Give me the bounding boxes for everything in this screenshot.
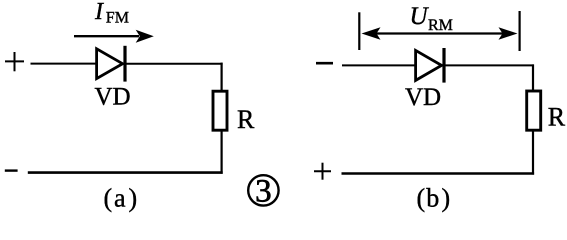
- svg-text:R: R: [237, 105, 255, 134]
- node + terminal (b): [314, 163, 331, 180]
- svg-text:VD: VD: [94, 84, 130, 111]
- label (a): [104, 184, 138, 213]
- node - terminal (b): [316, 62, 333, 65]
- svg-text:RM: RM: [428, 17, 453, 34]
- measure tick right (b): [518, 11, 520, 51]
- resistor R (b): [527, 91, 541, 130]
- svg-text:a: a: [114, 184, 126, 213]
- wire vertical to resistor top (b): [532, 64, 534, 91]
- figure number 3: [248, 174, 278, 210]
- svg-text:FM: FM: [106, 9, 129, 26]
- label IFM: [94, 0, 129, 26]
- measure arrow URM: [362, 27, 518, 39]
- svg-text:I: I: [94, 0, 104, 25]
- current arrow IFM: [74, 30, 154, 43]
- wire anode lead (a): [31, 63, 98, 65]
- svg-text:3: 3: [255, 174, 272, 210]
- wire cathode to corner (b): [445, 64, 534, 66]
- svg-text:(: (: [104, 184, 113, 213]
- wire resistor bottom down (b): [532, 131, 534, 175]
- wire resistor bottom down (a): [221, 131, 223, 174]
- measure tick left (b): [358, 12, 360, 50]
- node + terminal (a): [5, 52, 24, 71]
- svg-text:VD: VD: [405, 84, 441, 111]
- wire bottom return (b): [342, 172, 535, 175]
- svg-text:): ): [129, 184, 138, 213]
- label URM: [410, 3, 453, 34]
- node - terminal (a): [5, 169, 18, 171]
- svg-text:): ): [442, 184, 451, 213]
- svg-text:(: (: [417, 184, 426, 213]
- label (b): [417, 184, 451, 213]
- wire anode lead (b): [342, 64, 416, 66]
- wire cathode to corner (a): [126, 63, 223, 65]
- resistor R (a): [213, 91, 227, 130]
- svg-text:R: R: [548, 103, 566, 132]
- diode VD (b): [416, 48, 444, 83]
- wire vertical to resistor top (a): [221, 63, 223, 91]
- svg-text:b: b: [426, 184, 439, 213]
- svg-text:U: U: [410, 3, 430, 30]
- wire bottom return (a): [28, 171, 223, 174]
- diode VD (a): [97, 46, 125, 82]
